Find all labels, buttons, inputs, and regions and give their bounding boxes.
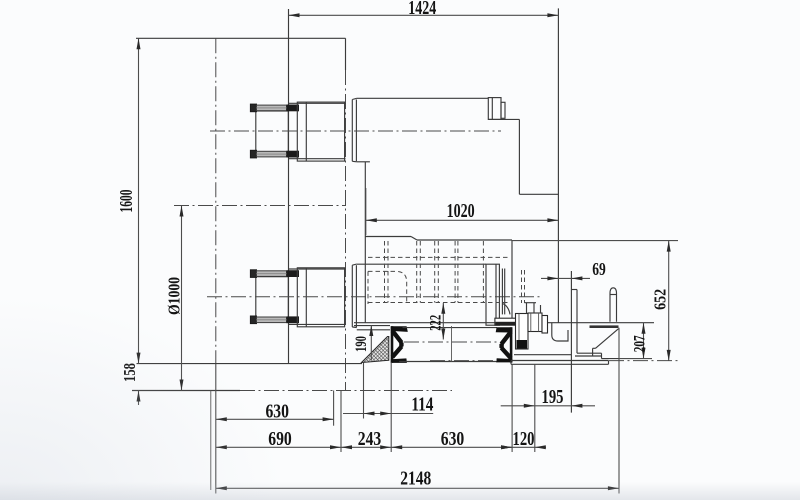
lower bushing stud bolt lower <box>250 316 256 324</box>
upper bushing centerline <box>210 130 501 132</box>
left bellows <box>391 326 408 332</box>
lower bushing centerline <box>207 296 540 298</box>
dim 207 <box>619 323 652 359</box>
hidden internal horizontals <box>368 256 510 258</box>
dim 1020 <box>366 188 559 235</box>
pump end flange <box>542 316 548 334</box>
bracket gusset diagonal <box>596 329 619 349</box>
tank right corner edge <box>345 38 347 70</box>
bracket left plate <box>570 271 572 413</box>
tank vertical centerline <box>345 70 347 391</box>
dim 1424 <box>289 0 559 19</box>
upper bushing tank hole lines <box>289 102 346 104</box>
lower bushing cone bottom edge <box>357 329 390 331</box>
svg-text:652: 652 <box>651 289 670 310</box>
base frame mid phantom <box>404 341 497 343</box>
crank bottom edge <box>519 193 558 195</box>
upper bushing underside line <box>488 118 519 120</box>
svg-text:69: 69 <box>592 259 606 279</box>
svg-text:195: 195 <box>542 386 564 408</box>
svg-text:207: 207 <box>632 335 649 352</box>
hidden internal verticals <box>384 241 386 303</box>
upper bushing end knob <box>488 98 501 120</box>
machine right boundary line <box>557 8 559 322</box>
gusset plate hatched <box>362 337 389 363</box>
lower bushing mounting flange <box>351 265 353 327</box>
dim 222 <box>428 303 446 340</box>
upper bushing stud bolt lower <box>250 150 256 158</box>
body bottom edge <box>354 322 654 324</box>
pedestal top line <box>137 363 363 365</box>
phantom tangent top of porcelain <box>174 205 346 207</box>
body top edge <box>365 236 411 238</box>
pump flange plate <box>495 318 520 325</box>
stud with dome top <box>610 288 617 322</box>
auxiliary vertical left <box>210 391 212 491</box>
tank left hidden edge <box>215 38 217 364</box>
dim 1600 <box>116 38 141 363</box>
svg-text:1020: 1020 <box>447 200 475 222</box>
dim 630 row2 <box>391 364 512 452</box>
pump right box <box>528 313 542 332</box>
dim 630 row1 <box>216 391 334 426</box>
extension vertical left <box>215 364 217 494</box>
upper bushing terminal box <box>256 111 288 152</box>
base plate level1 <box>514 354 572 356</box>
bracket foot <box>575 355 602 357</box>
body right edge <box>511 240 513 323</box>
hook curl at bushing end <box>503 304 510 315</box>
tank front edge <box>288 9 290 364</box>
base frame bottom line <box>399 361 497 363</box>
lower bushing terminal box <box>256 277 288 318</box>
tank top edge <box>136 37 346 39</box>
pump top pins <box>526 303 528 314</box>
lower bushing end slab <box>486 264 499 325</box>
dim 243 <box>341 362 391 452</box>
dim 195 <box>501 386 595 408</box>
body left edge / support column <box>364 162 366 323</box>
hidden elbow duct <box>368 271 407 304</box>
hidden pin lines <box>521 270 523 303</box>
upper bushing middle cylinder <box>297 102 344 161</box>
dim 652 <box>512 241 678 361</box>
dim 69 <box>541 259 606 280</box>
ground phantom line <box>430 360 497 362</box>
base plate level2 <box>511 360 609 362</box>
dim 2148 <box>216 467 619 490</box>
dim 114 <box>343 363 433 419</box>
svg-text:222: 222 <box>428 315 445 331</box>
lower bushing tank hole lines <box>289 268 346 270</box>
crank drop edge <box>518 119 520 194</box>
lower bushing stud bolt upper <box>250 270 256 278</box>
lower bushing neck lines <box>501 269 503 315</box>
svg-text:1424: 1424 <box>408 0 436 19</box>
lower bushing cone top edge <box>357 263 486 265</box>
dim 158 <box>120 363 141 405</box>
dim 120 <box>501 364 546 452</box>
valve cylinder <box>516 314 529 350</box>
lower bushing middle cylinder <box>297 268 344 327</box>
svg-text:1600: 1600 <box>116 190 136 213</box>
bracket shelf plate <box>590 325 619 328</box>
dim diameter 1000 <box>165 206 184 391</box>
svg-text:630: 630 <box>441 428 465 450</box>
upper bushing cone bottom stub <box>357 161 370 163</box>
dim 690 <box>216 391 341 453</box>
cover curl <box>552 323 568 341</box>
machine center vertical <box>451 326 453 362</box>
dim 190 <box>353 325 373 360</box>
upper bushing mounting flange <box>351 100 353 162</box>
base frame top line <box>403 327 498 329</box>
upper bushing cone top edge <box>357 97 489 99</box>
right bellows <box>496 327 513 332</box>
svg-text:120: 120 <box>513 428 535 450</box>
upper bushing stud bolt upper <box>250 104 256 112</box>
phantom tangent bottom of porcelain <box>132 390 240 392</box>
extension vertical right <box>618 328 620 494</box>
